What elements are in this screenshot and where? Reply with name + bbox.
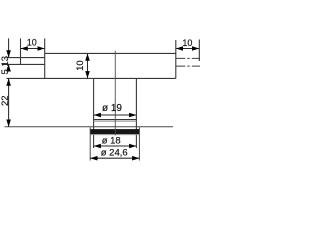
terminal stub center lines [176,58,200,66]
svg-text:ø 19: ø 19 [102,103,122,114]
panel line [5,126,174,128]
bushing right side / dim extension [135,78,137,148]
bar top edge (right section) [45,52,176,54]
bushing bottom [94,119,137,121]
left section left edge / dim extension [20,38,22,64]
svg-text:5,13: 5,13 [0,56,11,75]
left section lower line + left extension [2,63,45,65]
svg-text:ø 24,6: ø 24,6 [101,148,128,159]
svg-text:10: 10 [182,38,192,48]
bar bottom edge + left extension [7,77,176,79]
bezel bottom edge [91,134,140,136]
diameter 24.6 extension / bezel edge right [138,127,140,160]
svg-text:10: 10 [75,60,86,71]
gasket dark band [91,129,140,134]
bezel ring top [94,120,137,122]
diameter 24.6 extension / bezel edge left [89,127,91,160]
left section top edge + left extension [7,57,45,59]
svg-text:10: 10 [27,37,37,47]
svg-text:ø 18: ø 18 [102,135,121,146]
bushing left side / dim extension [93,78,95,148]
svg-text:22: 22 [0,95,11,106]
step edge / dim extension [44,38,46,78]
bar right end cap / dim extension [175,40,177,78]
center axis [114,51,116,136]
